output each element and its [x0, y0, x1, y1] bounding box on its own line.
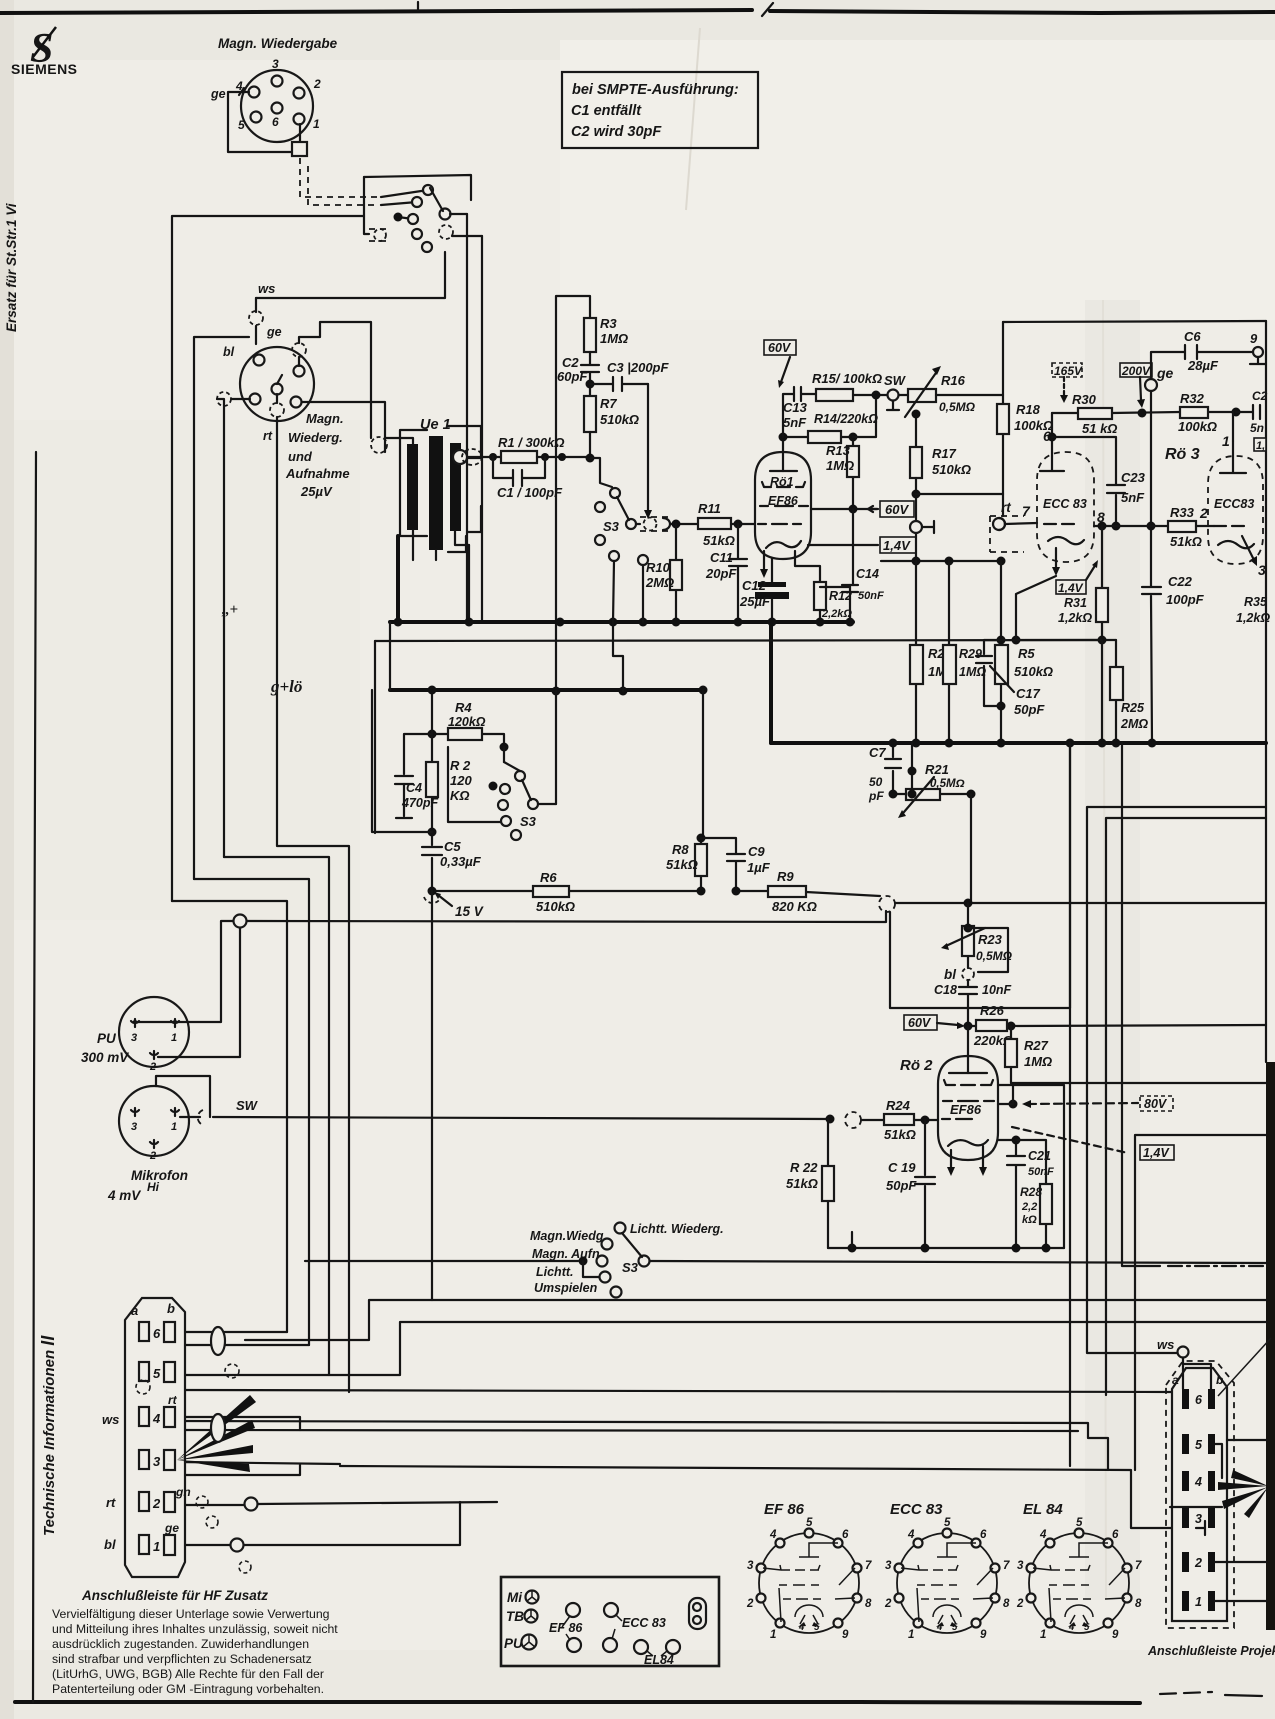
svg-text:R18: R18 — [1016, 402, 1041, 417]
svg-text:R30: R30 — [1072, 392, 1097, 407]
svg-text:820 KΩ: 820 KΩ — [772, 899, 817, 914]
svg-text:C13: C13 — [783, 400, 808, 415]
svg-text:S3: S3 — [622, 1260, 639, 1275]
svg-text:51kΩ: 51kΩ — [703, 533, 735, 548]
svg-text:ge: ge — [210, 87, 226, 101]
bus main earth y743 — [771, 741, 1266, 745]
svg-text:5nF: 5nF — [1121, 490, 1145, 505]
wire mikrofon top loop — [156, 1076, 210, 1117]
svg-text:ECC 83: ECC 83 — [1043, 497, 1087, 511]
capacitor C2 — [557, 352, 599, 396]
wire ge to C6 line — [1151, 352, 1258, 379]
contact transformer output dashed — [453, 449, 482, 465]
svg-text:5: 5 — [1084, 1622, 1090, 1633]
wire right bundle P1 — [1087, 807, 1266, 1353]
contact jack — [910, 521, 934, 533]
tube base diagram EF86 — [746, 1501, 872, 1641]
svg-text:1µF: 1µF — [747, 860, 771, 875]
svg-text:C11: C11 — [710, 550, 733, 565]
wire output to R1 — [467, 456, 501, 458]
wire switch to bus verticals — [466, 214, 468, 621]
note box bei SMPTE — [562, 72, 758, 148]
svg-text:6: 6 — [1112, 1529, 1119, 1541]
svg-text:rt: rt — [106, 1495, 116, 1510]
svg-text:25µV: 25µV — [300, 484, 333, 499]
svg-text:Hi: Hi — [147, 1180, 160, 1194]
voltage label 1,4V roe2 — [1012, 1127, 1174, 1160]
svg-text:Mi: Mi — [507, 1590, 522, 1605]
svg-text:4: 4 — [769, 1529, 777, 1541]
resistor R20 — [910, 561, 953, 743]
svg-text:C7: C7 — [869, 745, 886, 760]
wire y891 line R6-R9 — [432, 891, 880, 896]
connector Anschlussleiste Projektor body — [1172, 1368, 1227, 1621]
svg-text:EL84: EL84 — [644, 1653, 674, 1667]
svg-text:rt: rt — [263, 429, 273, 443]
svg-text:165V: 165V — [1054, 364, 1083, 378]
wire C5 junction down — [431, 891, 433, 1300]
bus main earth y622 — [390, 620, 853, 624]
tube Roe2 EF86 — [900, 1026, 998, 1176]
wire R3 top loop to x556 — [556, 296, 590, 691]
svg-text:C6: C6 — [1184, 329, 1201, 344]
tube ECC83 left (Roe3 a) — [1037, 443, 1094, 576]
resistor R11 — [698, 501, 735, 548]
svg-text:1,4V: 1,4V — [883, 538, 911, 553]
potentiometer R16 — [899, 366, 976, 417]
tube ECC83 right (Roe3 b) — [1208, 441, 1263, 566]
bus second y690 — [390, 688, 703, 692]
svg-text:7: 7 — [1022, 503, 1031, 519]
svg-text:ws: ws — [1157, 1337, 1174, 1352]
svg-text:TB: TB — [506, 1609, 524, 1624]
svg-text:5: 5 — [238, 118, 245, 132]
svg-text:ws: ws — [258, 281, 275, 296]
svg-text:1MΩ: 1MΩ — [959, 665, 986, 679]
svg-text:2MΩ: 2MΩ — [645, 575, 674, 590]
capacitor C11 — [705, 524, 747, 622]
svg-text:Patenterteilung oder GM -Eintr: Patenterteilung oder GM -Eintragung vorb… — [52, 1682, 324, 1696]
resistor R7 — [584, 396, 639, 432]
svg-text:bl: bl — [104, 1537, 116, 1552]
svg-text:EF86: EF86 — [950, 1102, 982, 1117]
svg-text:R9: R9 — [777, 869, 794, 884]
svg-text:5n: 5n — [1250, 421, 1264, 435]
svg-text:Rö1: Rö1 — [770, 475, 794, 489]
wire R1 to R7 junction — [537, 456, 590, 458]
svg-text:6: 6 — [1195, 1393, 1203, 1407]
voltage label 80V dashed line — [998, 1085, 1173, 1111]
svg-text:2: 2 — [152, 1496, 161, 1511]
svg-text:C23: C23 — [1121, 470, 1146, 485]
svg-text:R33: R33 — [1170, 505, 1195, 520]
svg-text:a: a — [131, 1303, 138, 1318]
svg-text:C9: C9 — [748, 844, 765, 859]
svg-text:5: 5 — [806, 1517, 813, 1529]
wire thick bus inside connector — [1170, 1506, 1222, 1508]
svg-text:51kΩ: 51kΩ — [786, 1176, 818, 1191]
svg-text:C21: C21 — [1028, 1149, 1051, 1163]
svg-text:R29: R29 — [959, 647, 982, 661]
wire pin1 down — [299, 124, 301, 142]
svg-text:ECC83: ECC83 — [1214, 497, 1254, 511]
voltage label 60V at top with arrow — [764, 340, 796, 388]
capacitor C19 — [886, 1120, 935, 1248]
resistor R6 — [533, 870, 575, 914]
resistor R12 — [814, 582, 852, 622]
svg-text:Wiederg.: Wiederg. — [288, 430, 343, 445]
svg-text:510kΩ: 510kΩ — [932, 462, 971, 477]
svg-text:1,2kΩ: 1,2kΩ — [1236, 611, 1270, 625]
svg-text:ws: ws — [102, 1412, 119, 1427]
svg-text:C3 |200pF: C3 |200pF — [607, 360, 669, 375]
capacitor C21 — [998, 1136, 1054, 1249]
svg-text:C2: C2 — [1252, 389, 1268, 403]
right border line — [1265, 321, 1267, 1062]
svg-text:51kΩ: 51kΩ — [666, 857, 698, 872]
svg-text:2: 2 — [746, 1598, 754, 1610]
socket PU — [81, 997, 189, 1073]
svg-text:(LitUrhG, UWG, BGB) Alle Rech: (LitUrhG, UWG, BGB) Alle Rechte für den … — [52, 1667, 324, 1681]
svg-text:28µF: 28µF — [1187, 358, 1219, 373]
svg-text:1,: 1, — [1256, 440, 1265, 452]
svg-text:1: 1 — [908, 1629, 914, 1641]
svg-text:60V: 60V — [768, 341, 792, 355]
resistor R3 — [584, 316, 628, 352]
wire fan from pin b3 — [177, 1395, 256, 1472]
svg-text:b: b — [1216, 1373, 1223, 1387]
svg-text:5: 5 — [944, 1517, 951, 1529]
svg-text:EF 86: EF 86 — [549, 1621, 583, 1635]
svg-text:3: 3 — [153, 1454, 161, 1469]
svg-text:1: 1 — [171, 1121, 177, 1133]
svg-text:10nF: 10nF — [982, 983, 1012, 997]
svg-text:R7: R7 — [600, 396, 617, 411]
voltage label 1,4V — [880, 537, 916, 553]
svg-text:5: 5 — [814, 1622, 820, 1633]
wire contact to pin7 — [1005, 523, 1037, 524]
capacitor C5 — [372, 690, 482, 891]
svg-text:510kΩ: 510kΩ — [1014, 664, 1053, 679]
svg-text:8: 8 — [1135, 1598, 1142, 1610]
contact hop at y900 — [879, 896, 895, 912]
wire pin5b hook — [1215, 1444, 1222, 1478]
svg-text:1,2kΩ: 1,2kΩ — [1058, 611, 1092, 625]
svg-text:60pF: 60pF — [557, 369, 588, 384]
svg-text:R4: R4 — [455, 700, 472, 715]
svg-text:Mikrofon: Mikrofon — [131, 1168, 188, 1183]
resistor R27 — [1005, 1026, 1052, 1083]
svg-text:R3: R3 — [600, 316, 617, 331]
paper crease marks — [686, 28, 700, 210]
svg-text:R35: R35 — [1244, 595, 1268, 609]
wire R31 bottom to bus — [1101, 640, 1103, 743]
wire R16 wiper to R17 — [915, 412, 917, 447]
svg-text:15 V: 15 V — [455, 904, 484, 919]
wire y903 to right — [895, 902, 1266, 904]
svg-text:Technische Informationen II: Technische Informationen II — [38, 1335, 58, 1536]
svg-text:3: 3 — [131, 1032, 137, 1044]
svg-text:6: 6 — [272, 115, 279, 129]
contact rt dashed — [270, 403, 284, 417]
svg-text:1,4V: 1,4V — [1143, 1146, 1170, 1160]
svg-text:2: 2 — [1199, 505, 1208, 521]
wire screen loop right — [998, 1085, 1064, 1248]
svg-text:2: 2 — [1194, 1556, 1202, 1570]
labels ws rt bl gn ge at connector — [102, 1393, 191, 1552]
resistor R24 — [884, 1098, 916, 1142]
wire R4 box left — [431, 690, 433, 832]
wire R14 right up loop — [853, 395, 876, 437]
svg-text:bl: bl — [944, 967, 956, 982]
voltage label 165V dashed — [1052, 363, 1083, 403]
svg-text:0,5MΩ: 0,5MΩ — [930, 778, 965, 790]
svg-text:3: 3 — [1195, 1512, 1202, 1526]
wire bl pin to long vertical — [217, 399, 250, 857]
resistor R32 — [1178, 391, 1217, 434]
svg-text:bl: bl — [223, 345, 235, 359]
right edge dark band — [1266, 1062, 1275, 1630]
svg-text:0,5MΩ: 0,5MΩ — [939, 400, 976, 414]
svg-text:R11: R11 — [698, 501, 721, 516]
svg-text:bei SMPTE-Ausführung:: bei SMPTE-Ausführung: — [572, 82, 739, 98]
wire hop ellipses — [211, 1327, 225, 1355]
resistor R9 — [768, 869, 817, 914]
svg-text:120kΩ: 120kΩ — [448, 715, 486, 729]
connector bushing below socket — [292, 142, 307, 156]
wire outer loop y640 — [375, 640, 1101, 641]
wire ge pin to transformer loop — [299, 322, 371, 438]
wire long y922 from PU — [247, 911, 886, 922]
svg-text:2: 2 — [884, 1598, 892, 1610]
svg-text:9: 9 — [842, 1629, 849, 1641]
wire hf pin wires — [178, 1331, 287, 1333]
wire S3 to x556 — [555, 691, 557, 804]
svg-text:100kΩ: 100kΩ — [1178, 419, 1217, 434]
resistor R29 — [943, 561, 986, 743]
svg-text:Magn.Wiedg: Magn.Wiedg — [530, 1229, 604, 1243]
transformer Ue1 — [385, 426, 481, 560]
svg-text:9: 9 — [980, 1629, 987, 1641]
svg-text:R14/220kΩ: R14/220kΩ — [814, 412, 878, 426]
resistor R5 — [995, 561, 1053, 743]
contact bl — [944, 967, 974, 982]
svg-text:2: 2 — [313, 77, 321, 91]
svg-text:R 22: R 22 — [790, 1160, 818, 1175]
svg-text:1: 1 — [313, 117, 320, 131]
svg-text:Vervielfältigung dieser Unterl: Vervielfältigung dieser Unterlage sowie … — [52, 1607, 330, 1621]
svg-text:C1 entfällt: C1 entfällt — [571, 103, 642, 119]
resistor R31 — [1058, 526, 1108, 640]
tube Roe1 EF86 — [755, 437, 811, 578]
svg-text:Lichtt.: Lichtt. — [536, 1265, 574, 1279]
wire grid line — [636, 523, 698, 525]
wire ws run to switch — [256, 252, 445, 298]
svg-text:2,2: 2,2 — [1021, 1201, 1037, 1213]
svg-text:9: 9 — [1250, 331, 1258, 346]
wire R33 to pin2 — [1196, 525, 1214, 527]
tube base diagram EL84 — [1016, 1501, 1142, 1641]
svg-text:50nF: 50nF — [1028, 1166, 1054, 1178]
svg-text:ECC 83: ECC 83 — [622, 1616, 666, 1630]
wire transformer bottom to bus — [396, 536, 400, 622]
wire pin6 anode up to rail — [1051, 413, 1053, 443]
svg-text:und: und — [288, 449, 313, 464]
wire R2-S3 frame — [448, 747, 504, 822]
svg-text:C1 / 100pF: C1 / 100pF — [497, 485, 563, 500]
wire loop to bus via x1070 — [890, 743, 1070, 1008]
svg-text:und Mitteilung ihres Inhaltes: und Mitteilung ihres Inhaltes unzulässig… — [52, 1622, 338, 1636]
svg-text:3: 3 — [885, 1560, 892, 1572]
svg-text:0,33µF: 0,33µF — [440, 854, 482, 869]
connector pins right column b — [1208, 1389, 1215, 1611]
svg-text:R8: R8 — [672, 842, 689, 857]
terminal ge — [1145, 365, 1174, 391]
svg-text:PU: PU — [97, 1031, 117, 1046]
svg-text:510kΩ: 510kΩ — [600, 412, 639, 427]
svg-text:R27: R27 — [1024, 1038, 1049, 1053]
wire R21 junction down — [970, 794, 972, 903]
svg-text:1MΩ: 1MΩ — [600, 331, 628, 346]
switch S3 record — [489, 762, 557, 840]
left border line — [33, 452, 36, 1702]
wire S3 lower contacts to bus — [613, 561, 643, 622]
wire S3 feed from left — [305, 1260, 578, 1262]
potentiometer R23 — [941, 903, 1013, 972]
resistor R26 — [973, 1003, 1013, 1048]
svg-text:5: 5 — [1195, 1438, 1203, 1452]
tube base diagram ECC83 — [884, 1501, 1010, 1641]
svg-text:R23: R23 — [978, 932, 1003, 947]
svg-text:9: 9 — [1112, 1629, 1119, 1641]
svg-text:Magn.: Magn. — [306, 411, 344, 426]
contact ws dashed — [249, 311, 263, 325]
svg-text:4 mV: 4 mV — [107, 1188, 141, 1203]
connector pins right column a — [1182, 1389, 1189, 1611]
svg-text:50nF: 50nF — [858, 590, 884, 602]
svg-text:SW: SW — [884, 373, 907, 388]
svg-text:6: 6 — [153, 1326, 161, 1341]
resistor R1 — [498, 435, 565, 463]
wire cathode 1,4V line — [808, 544, 878, 546]
wire top rail y322 — [1003, 321, 1266, 322]
wire rt contact feed — [1002, 494, 1004, 516]
top border line — [0, 10, 752, 13]
wire left box verticals — [389, 622, 391, 690]
box tube legend Mi TB PU — [501, 1577, 719, 1667]
svg-text:b: b — [167, 1301, 175, 1316]
wire R11 to tube grid — [731, 523, 754, 525]
svg-text:2MΩ: 2MΩ — [1120, 717, 1148, 731]
contact pair dashed at grid — [640, 517, 670, 531]
wire screen 60V line — [811, 508, 878, 510]
svg-text:Anschlußleiste Projekt: Anschlußleiste Projekt — [1147, 1644, 1275, 1658]
voltage label 1,4V left tube — [1056, 560, 1098, 595]
svg-text:50pF: 50pF — [886, 1178, 917, 1193]
svg-text:R16: R16 — [941, 373, 966, 388]
capacitor C4 — [395, 734, 438, 818]
wire socket to transformer second — [302, 402, 385, 452]
svg-text:5: 5 — [153, 1366, 161, 1381]
svg-text:5: 5 — [952, 1622, 958, 1633]
svg-text:3: 3 — [131, 1121, 137, 1133]
wire ge down through C22 — [1151, 391, 1152, 743]
wire right bundle P2 — [1106, 818, 1266, 1395]
svg-text:2: 2 — [149, 1150, 156, 1162]
voltage label 60V mid — [904, 1015, 965, 1030]
svg-text:C4: C4 — [406, 781, 422, 795]
svg-text:gn: gn — [175, 1485, 191, 1499]
svg-text:4: 4 — [152, 1411, 161, 1426]
wire box around socket — [194, 337, 249, 879]
resistor R13 — [826, 437, 859, 508]
svg-text:R10: R10 — [646, 560, 671, 575]
svg-text:510kΩ: 510kΩ — [536, 899, 575, 914]
svg-text:SIEMENS: SIEMENS — [11, 61, 78, 77]
wire diagonal from pin6 — [1218, 1338, 1271, 1396]
svg-text:4: 4 — [1039, 1529, 1047, 1541]
svg-text:pF: pF — [868, 789, 884, 803]
svg-text:R32: R32 — [1180, 391, 1205, 406]
svg-text:4: 4 — [1194, 1475, 1202, 1489]
wire S3 bottom long right — [650, 1261, 1266, 1263]
wire R16 out to right — [936, 394, 1003, 396]
svg-text:C17: C17 — [1016, 686, 1041, 701]
contact transformer left dashed — [371, 437, 387, 453]
wire mikrofon to SW line — [180, 1116, 200, 1118]
svg-text:1,4V: 1,4V — [1058, 581, 1084, 595]
svg-text:3: 3 — [1258, 562, 1266, 578]
svg-text:R26: R26 — [980, 1003, 1005, 1018]
wire grid line SW long — [213, 1117, 938, 1120]
wire 60V line y1026 — [968, 1025, 1266, 1026]
resistor R2 — [426, 758, 472, 803]
svg-text:R28: R28 — [1020, 1185, 1042, 1199]
wire right bundle x1122 dash-dot — [1122, 743, 1160, 1266]
wire pin3 stub — [1196, 1521, 1205, 1535]
svg-text:3: 3 — [747, 1560, 754, 1572]
wire y494 to R18 — [916, 493, 1003, 495]
svg-text:300 mV: 300 mV — [81, 1050, 129, 1065]
svg-text:R15/ 100kΩ: R15/ 100kΩ — [812, 371, 882, 386]
svg-text:1: 1 — [770, 1629, 776, 1641]
supply rail y413 — [1052, 412, 1233, 413]
bus cathode roe2 y1248 — [828, 1247, 1064, 1249]
svg-text:R6: R6 — [540, 870, 557, 885]
svg-text:R13: R13 — [826, 443, 851, 458]
svg-text:8: 8 — [865, 1598, 872, 1610]
svg-text:KΩ: KΩ — [450, 788, 470, 803]
svg-text:1MΩ: 1MΩ — [1024, 1054, 1052, 1069]
wire cathode return y640 — [1016, 639, 1116, 641]
capacitor C1 — [493, 457, 563, 500]
svg-text:Umspielen: Umspielen — [534, 1281, 598, 1295]
resistor R30 — [1072, 392, 1117, 436]
svg-text:rt: rt — [168, 1393, 178, 1407]
svg-text:R21: R21 — [925, 762, 949, 777]
wire C3 down to S3 contact — [647, 384, 649, 515]
resistor R17 — [910, 446, 971, 478]
connector pins column b — [164, 1322, 175, 1555]
svg-text:2: 2 — [1016, 1598, 1024, 1610]
svg-text:C2: C2 — [562, 355, 579, 370]
svg-text:R 2: R 2 — [450, 758, 471, 773]
svg-text:R5: R5 — [1018, 646, 1035, 661]
svg-text:ge: ge — [164, 1521, 179, 1535]
switch S3 mid — [595, 488, 636, 561]
svg-text:R17: R17 — [932, 446, 957, 461]
svg-text:Rö 3: Rö 3 — [1165, 446, 1200, 463]
